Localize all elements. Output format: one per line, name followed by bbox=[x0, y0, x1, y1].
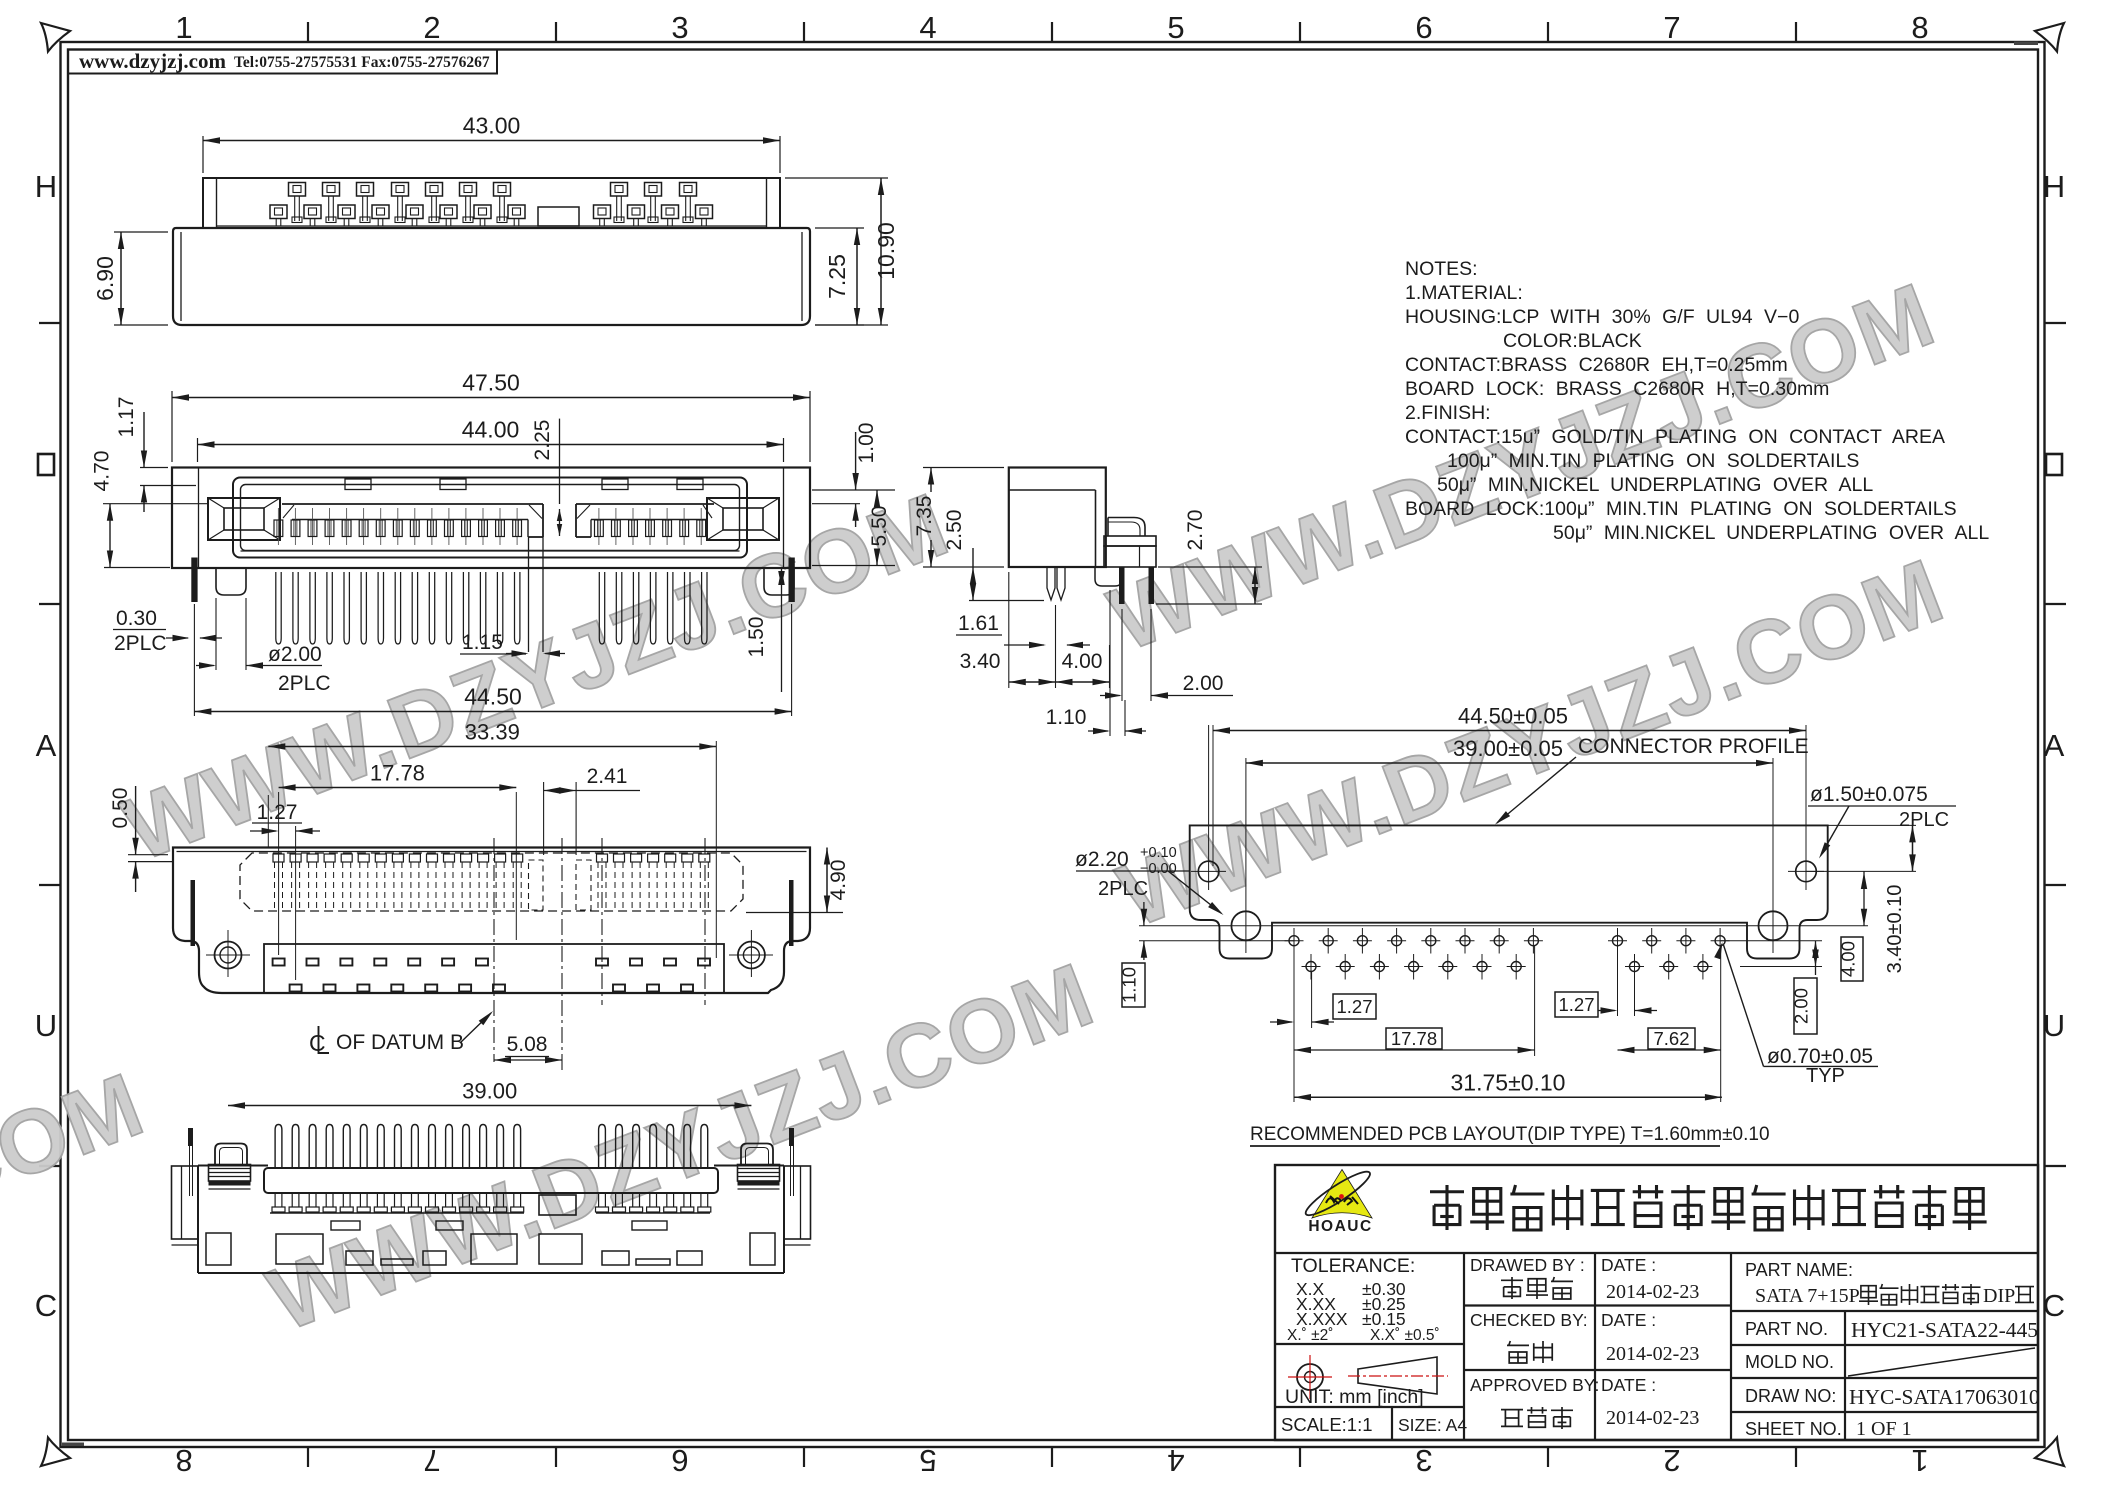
svg-text:2PLC: 2PLC bbox=[278, 672, 331, 695]
svg-text:DATE :: DATE : bbox=[1601, 1310, 1656, 1330]
svg-text:1 OF 1: 1 OF 1 bbox=[1856, 1418, 1912, 1440]
svg-text:4: 4 bbox=[919, 10, 936, 45]
dim 1.17 bbox=[140, 485, 196, 487]
svg-text:+0.10: +0.10 bbox=[1140, 845, 1177, 861]
svg-text:X.X˚ ±0.5˚: X.X˚ ±0.5˚ bbox=[1370, 1327, 1440, 1344]
svg-text:NOTES:: NOTES: bbox=[1405, 258, 1478, 280]
rear view spring plate right bbox=[738, 1165, 780, 1182]
svg-text:HYC-SATA17063010: HYC-SATA17063010 bbox=[1849, 1385, 2040, 1409]
svg-text:DIP: DIP bbox=[1983, 1285, 2015, 1307]
svg-text:PART NO.: PART NO. bbox=[1745, 1319, 1828, 1339]
svg-text:1: 1 bbox=[175, 10, 192, 45]
svg-text:39.00±0.05: 39.00±0.05 bbox=[1453, 736, 1563, 761]
border micro text marks bbox=[62, 1443, 84, 1447]
svg-text:SHEET NO.: SHEET NO. bbox=[1745, 1419, 1842, 1439]
svg-text:X.˚ ±2˚: X.˚ ±2˚ bbox=[1287, 1327, 1333, 1344]
svg-text:1: 1 bbox=[1911, 1443, 1928, 1478]
svg-text:X.XXX: X.XXX bbox=[1296, 1309, 1348, 1329]
rear view pin legs right bbox=[598, 1193, 600, 1207]
svg-text:43.00: 43.00 bbox=[463, 113, 521, 139]
info box bbox=[68, 50, 497, 74]
svg-text:2.00: 2.00 bbox=[1791, 988, 1812, 1024]
svg-text:50μ” MIN.NICKEL UNDERPLATING: 50μ” MIN.NICKEL UNDERPLATING OVER ALL bbox=[1437, 474, 1873, 496]
top view key notch bbox=[538, 207, 579, 226]
svg-text:6: 6 bbox=[1415, 10, 1432, 45]
svg-text:2.50: 2.50 bbox=[943, 510, 966, 551]
svg-text:1.17: 1.17 bbox=[115, 397, 138, 438]
dim 2.00 bbox=[1121, 609, 1123, 701]
front view center key walls bbox=[528, 537, 530, 652]
svg-text:2.70: 2.70 bbox=[1184, 510, 1207, 551]
pcb dim 2.00 boxed bbox=[1721, 940, 1822, 942]
pcb centerline through big holes bbox=[1139, 925, 1868, 927]
bottom view dark bar right bbox=[789, 880, 794, 946]
svg-text:0.30: 0.30 bbox=[116, 607, 157, 630]
rear view side wing left bbox=[172, 1166, 199, 1239]
bottom view dark bar left bbox=[191, 880, 196, 946]
front view contacts right (7) bbox=[598, 508, 600, 545]
svg-text:APPROVED BY:: APPROVED BY: bbox=[1470, 1375, 1599, 1395]
svg-text:DRAW NO:: DRAW NO: bbox=[1745, 1386, 1836, 1406]
svg-text:DATE :: DATE : bbox=[1601, 1255, 1656, 1275]
svg-text:31.75±0.10: 31.75±0.10 bbox=[1451, 1069, 1566, 1095]
pcb profile outline bbox=[1190, 825, 1828, 958]
svg-text:TYP: TYP bbox=[1806, 1065, 1845, 1087]
svg-text:CONTACT:BRASS C2680R EH,T=0.: CONTACT:BRASS C2680R EH,T=0.25mm bbox=[1405, 354, 1788, 376]
svg-text:8: 8 bbox=[1911, 10, 1928, 45]
rear view latch dome right bbox=[741, 1144, 773, 1167]
svg-text:33.39: 33.39 bbox=[465, 720, 520, 745]
svg-text:−0.00: −0.00 bbox=[1140, 861, 1177, 877]
front view board-lock clip left bbox=[208, 498, 280, 540]
svg-text:4.70: 4.70 bbox=[91, 451, 114, 492]
dim 33.39 bbox=[267, 795, 269, 847]
front view board lock pin left bbox=[191, 558, 197, 603]
pcb pin crosses row 1 bbox=[1289, 936, 1299, 946]
svg-text:4.00: 4.00 bbox=[1062, 650, 1103, 673]
rear view blade bar bbox=[264, 1168, 718, 1193]
rear view latch dome left bbox=[215, 1144, 247, 1167]
svg-text:50μ” MIN.NICKEL UNDERPLATING: 50μ” MIN.NICKEL UNDERPLATING OVER ALL bbox=[1553, 522, 1989, 544]
svg-text:www.dzyjzj.com: www.dzyjzj.com bbox=[79, 49, 226, 73]
svg-text:39.00: 39.00 bbox=[462, 1079, 517, 1104]
svg-text:1.MATERIAL:: 1.MATERIAL: bbox=[1405, 282, 1523, 304]
corner trim arrow bottom-right bbox=[2035, 1438, 2064, 1467]
dim 44.00 bbox=[197, 438, 199, 462]
svg-text:CHECKED BY:: CHECKED BY: bbox=[1470, 1310, 1588, 1330]
dim 1.10 bbox=[1109, 590, 1111, 736]
pcb dim 1.27 right boxed bbox=[1555, 992, 1598, 1017]
svg-text:A: A bbox=[36, 728, 57, 763]
svg-text:5: 5 bbox=[919, 1443, 936, 1478]
svg-text:DRAWED BY :: DRAWED BY : bbox=[1470, 1255, 1585, 1275]
svg-text:C: C bbox=[35, 1288, 57, 1323]
top view upper housing outline bbox=[203, 178, 780, 228]
side view latch hook bbox=[1108, 518, 1145, 537]
svg-text:10.90: 10.90 bbox=[873, 222, 899, 280]
rear view bottom windows bbox=[206, 1233, 231, 1265]
svg-text:MOLD NO.: MOLD NO. bbox=[1745, 1352, 1834, 1372]
side view dark pin right bbox=[1149, 567, 1155, 604]
projection symbol circle bbox=[1297, 1364, 1323, 1390]
svg-text:47.50: 47.50 bbox=[462, 370, 520, 396]
svg-text:7.62: 7.62 bbox=[1653, 1028, 1689, 1049]
dim 2.70 bbox=[1158, 566, 1262, 568]
svg-text:±0.15: ±0.15 bbox=[1362, 1309, 1406, 1329]
corner trim arrow bottom-left bbox=[41, 1438, 70, 1467]
rear view pin legs left bbox=[274, 1193, 276, 1207]
svg-text:COLOR:BLACK: COLOR:BLACK bbox=[1503, 330, 1642, 352]
bottom view centerline right group bbox=[561, 838, 563, 1070]
side view fork pin bbox=[1047, 567, 1055, 600]
bottom view centerline datum B bbox=[493, 838, 495, 1062]
rear view top pins left (15) bbox=[275, 1125, 282, 1169]
dim 5.50 bbox=[812, 565, 895, 567]
dim 1.50 bbox=[781, 568, 783, 692]
svg-text:H: H bbox=[35, 169, 57, 204]
svg-text:ø2.00: ø2.00 bbox=[268, 643, 322, 666]
svg-text:2014-02-23: 2014-02-23 bbox=[1606, 1407, 1699, 1429]
front view tongue left bbox=[282, 503, 543, 505]
side view latch tab bbox=[1104, 546, 1156, 567]
svg-text:4.90: 4.90 bbox=[827, 860, 850, 901]
zone ticks bbox=[307, 22, 309, 42]
title block mold-no diagonal bbox=[1848, 1348, 2035, 1376]
svg-text:8: 8 bbox=[175, 1443, 192, 1478]
svg-text:ø1.50±0.075: ø1.50±0.075 bbox=[1810, 783, 1928, 806]
side view dark pin left bbox=[1119, 567, 1125, 604]
dim 7.35 bbox=[923, 467, 1004, 469]
dim 2.25 bbox=[559, 419, 561, 504]
svg-text:1.27: 1.27 bbox=[1336, 996, 1372, 1017]
rear view mid windows bbox=[331, 1221, 360, 1230]
svg-text:BOARD LOCK: BRASS C2680R H: BOARD LOCK: BRASS C2680R H,T=0.30mm bbox=[1405, 378, 1829, 400]
svg-text:4: 4 bbox=[1167, 1443, 1184, 1478]
svg-text:DATE :: DATE : bbox=[1601, 1375, 1656, 1395]
front view shroud bbox=[233, 478, 747, 558]
side view standoff boot bbox=[1095, 567, 1122, 586]
svg-text:TOLERANCE:: TOLERANCE: bbox=[1291, 1255, 1415, 1277]
svg-text:1.27: 1.27 bbox=[1558, 994, 1594, 1015]
dim 17.78 bbox=[278, 792, 280, 955]
svg-text:6: 6 bbox=[671, 1443, 688, 1478]
rear view body bbox=[198, 1165, 268, 1167]
svg-text:CONNECTOR PROFILE: CONNECTOR PROFILE bbox=[1578, 735, 1809, 758]
top view pin row upper bbox=[289, 183, 306, 197]
svg-text:17.78: 17.78 bbox=[1391, 1028, 1437, 1049]
dim 3.40 and 4.00 bbox=[1008, 572, 1010, 688]
dim 2.41 bbox=[543, 782, 545, 855]
svg-text:7.35: 7.35 bbox=[913, 496, 936, 537]
bottom view hidden slots right bbox=[597, 854, 608, 862]
front view standoff boot right bbox=[764, 568, 794, 595]
svg-text:5: 5 bbox=[1167, 10, 1184, 45]
logo ellipse swoosh bbox=[1302, 1166, 1374, 1221]
pcb dim 39.00 bbox=[1246, 762, 1773, 764]
svg-text:2.25: 2.25 bbox=[531, 420, 554, 461]
svg-text:4.00: 4.00 bbox=[1838, 941, 1859, 977]
svg-text:1.27: 1.27 bbox=[257, 801, 298, 824]
bottom view mounting hole left bbox=[215, 942, 242, 969]
rear view top pins right (7) bbox=[599, 1125, 606, 1169]
dim 10.90 bbox=[785, 177, 888, 179]
front view tongue right bbox=[576, 503, 714, 505]
svg-text:U: U bbox=[35, 1008, 57, 1043]
top view lower housing outline bbox=[173, 228, 810, 325]
dim 6.90 bbox=[114, 231, 168, 233]
company name bbox=[1430, 1190, 1464, 1193]
svg-text:Tel:0755-27575531 Fax:0755-27: Tel:0755-27575531 Fax:0755-27576267 bbox=[234, 54, 490, 71]
logo triangle bbox=[1312, 1170, 1372, 1219]
svg-text:44.50: 44.50 bbox=[464, 684, 522, 710]
svg-text:0.50: 0.50 bbox=[109, 788, 132, 829]
svg-text:7: 7 bbox=[1663, 10, 1680, 45]
svg-text:2: 2 bbox=[1663, 1443, 1680, 1478]
svg-text:SATA 7+15P: SATA 7+15P bbox=[1755, 1285, 1860, 1307]
svg-text:1.61: 1.61 bbox=[958, 612, 999, 635]
svg-text:2: 2 bbox=[423, 10, 440, 45]
svg-text:7.25: 7.25 bbox=[824, 254, 850, 299]
dim 2.50 bbox=[969, 600, 1044, 602]
svg-text:HOUSING:LCP WITH 30% G/F U: HOUSING:LCP WITH 30% G/F UL94 V−0 bbox=[1405, 306, 1799, 328]
bottom view base plate bbox=[264, 944, 724, 993]
svg-text:3: 3 bbox=[1415, 1443, 1432, 1478]
svg-text:A: A bbox=[2044, 728, 2065, 763]
svg-text:PART NAME:: PART NAME: bbox=[1745, 1260, 1853, 1280]
svg-text:2PLC: 2PLC bbox=[114, 632, 167, 655]
svg-text:100μ” MIN.TIN PLATING ON S: 100μ” MIN.TIN PLATING ON SOLDERTAILS bbox=[1447, 450, 1859, 472]
svg-text:BOARD LOCK:100μ” MIN.TIN PL: BOARD LOCK:100μ” MIN.TIN PLATING ON SOLD… bbox=[1405, 498, 1957, 520]
logo calligraphy marks bbox=[1326, 1196, 1358, 1205]
svg-text:ø2.20: ø2.20 bbox=[1075, 848, 1129, 871]
svg-text:1.10: 1.10 bbox=[1046, 706, 1087, 729]
dim 7.25 bbox=[815, 227, 864, 229]
dim 47.50 bbox=[171, 391, 173, 462]
svg-text:7: 7 bbox=[423, 1443, 440, 1478]
dim 4.90 bbox=[746, 912, 843, 914]
dim 39.00 bbox=[228, 1105, 751, 1107]
svg-text:2.41: 2.41 bbox=[587, 765, 628, 788]
top view pin row lower bbox=[270, 205, 287, 219]
bottom view hidden key slots bbox=[529, 860, 544, 910]
front view soldertails left (15) bbox=[276, 572, 281, 644]
svg-text:1.15: 1.15 bbox=[462, 631, 503, 654]
svg-text:2PLC: 2PLC bbox=[1098, 878, 1148, 900]
rear view side wing right bbox=[784, 1166, 811, 1239]
svg-text:SIZE: A4: SIZE: A4 bbox=[1398, 1415, 1467, 1435]
svg-text:44.50±0.05: 44.50±0.05 bbox=[1458, 704, 1568, 729]
svg-text:CONTACT:15u” GOLD/TIN PLATIN: CONTACT:15u” GOLD/TIN PLATING ON CONTACT… bbox=[1405, 426, 1945, 448]
side view latch band bbox=[1104, 536, 1156, 546]
svg-text:2PLC: 2PLC bbox=[1899, 809, 1949, 831]
front view back plate bbox=[172, 468, 810, 569]
svg-text:3.40: 3.40 bbox=[960, 650, 1001, 673]
front view soldertails right (7) bbox=[599, 572, 604, 644]
corner trim arrow top-left bbox=[41, 23, 70, 52]
pcb hole big right bbox=[1759, 911, 1788, 940]
dim 4.70 bbox=[140, 467, 168, 469]
pcb dim 1.27 left boxed bbox=[1333, 994, 1376, 1019]
bottom view hidden shroud outline bbox=[240, 853, 743, 911]
bottom view pad row 2 bbox=[290, 985, 302, 992]
rear view spring plate left bbox=[209, 1165, 251, 1182]
bottom view pad row 1 bbox=[273, 959, 285, 966]
side view body bbox=[1009, 468, 1106, 568]
svg-text:1.00: 1.00 bbox=[855, 423, 878, 464]
svg-text:HYC21-SATA22-445: HYC21-SATA22-445 bbox=[1851, 1318, 2038, 1342]
pcb dim 17.78 boxed bbox=[1293, 1028, 1295, 1056]
rear view lock pin right bbox=[789, 1128, 794, 1146]
corner trim arrow top-right bbox=[2035, 23, 2064, 52]
pcb hole small left bbox=[1198, 861, 1219, 882]
pcb hole big left bbox=[1231, 911, 1260, 940]
pcb dim 3.40 bbox=[1828, 824, 1916, 826]
projection symbol cone bbox=[1358, 1357, 1437, 1394]
dim 1.00 bbox=[812, 489, 895, 491]
svg-text:HOAUC: HOAUC bbox=[1308, 1218, 1372, 1235]
pcb dim 44.50 bbox=[1212, 725, 1214, 866]
pcb dim 4.00 boxed bbox=[1863, 871, 1865, 925]
bottom view hidden slots left bbox=[273, 854, 284, 862]
svg-text:3.40±0.10: 3.40±0.10 bbox=[1884, 885, 1906, 974]
front view board-lock clip right bbox=[707, 498, 779, 540]
svg-text:UNIT: mm [inch]: UNIT: mm [inch] bbox=[1285, 1386, 1424, 1408]
pcb pin crosses row 2 bbox=[1306, 962, 1316, 972]
rear view lock pin left bbox=[188, 1128, 193, 1146]
svg-text:2014-02-23: 2014-02-23 bbox=[1606, 1343, 1699, 1365]
svg-text:6.90: 6.90 bbox=[92, 256, 118, 301]
svg-text:44.00: 44.00 bbox=[462, 417, 520, 443]
pcb hole small right bbox=[1796, 861, 1817, 882]
svg-text:C: C bbox=[2043, 1288, 2065, 1323]
front view board lock pin right bbox=[789, 558, 795, 603]
svg-text:3: 3 bbox=[671, 10, 688, 45]
pcb dim 31.75 bbox=[1293, 1056, 1295, 1102]
svg-text:5.08: 5.08 bbox=[507, 1033, 548, 1056]
pcb dim 1.10 boxed bbox=[1139, 940, 1294, 942]
bottom view outline bbox=[173, 848, 810, 994]
front view latch notches bbox=[345, 479, 371, 490]
svg-text:2.FINISH:: 2.FINISH: bbox=[1405, 402, 1491, 424]
svg-text:RECOMMENDED PCB LAYOUT(DIP: RECOMMENDED PCB LAYOUT(DIP TYPE) T=1.60m… bbox=[1250, 1124, 1770, 1145]
svg-text:1.50: 1.50 bbox=[745, 617, 768, 658]
svg-text:H: H bbox=[2043, 169, 2065, 204]
title block frame bbox=[1275, 1165, 2038, 1440]
front view contacts left (15) bbox=[277, 508, 279, 545]
dim 44.50 bbox=[193, 604, 195, 716]
pcb dim 7.62 boxed bbox=[1720, 946, 1722, 1102]
svg-text:1.10: 1.10 bbox=[1119, 967, 1140, 1003]
bottom view mounting hole right bbox=[738, 942, 765, 969]
svg-text:17.78: 17.78 bbox=[370, 761, 425, 786]
svg-text:2.00: 2.00 bbox=[1183, 672, 1224, 695]
svg-text:U: U bbox=[2043, 1008, 2065, 1043]
dim 43.00 bbox=[202, 136, 204, 173]
svg-text:OF DATUM B: OF DATUM B bbox=[336, 1031, 464, 1054]
svg-text:5.50: 5.50 bbox=[868, 506, 891, 547]
rear view key block bbox=[539, 1195, 576, 1215]
dim 0.50 bbox=[128, 854, 168, 856]
svg-text:SCALE:1:1: SCALE:1:1 bbox=[1281, 1414, 1373, 1435]
front view standoff boot left bbox=[216, 568, 246, 595]
svg-text:2014-02-23: 2014-02-23 bbox=[1606, 1281, 1699, 1303]
